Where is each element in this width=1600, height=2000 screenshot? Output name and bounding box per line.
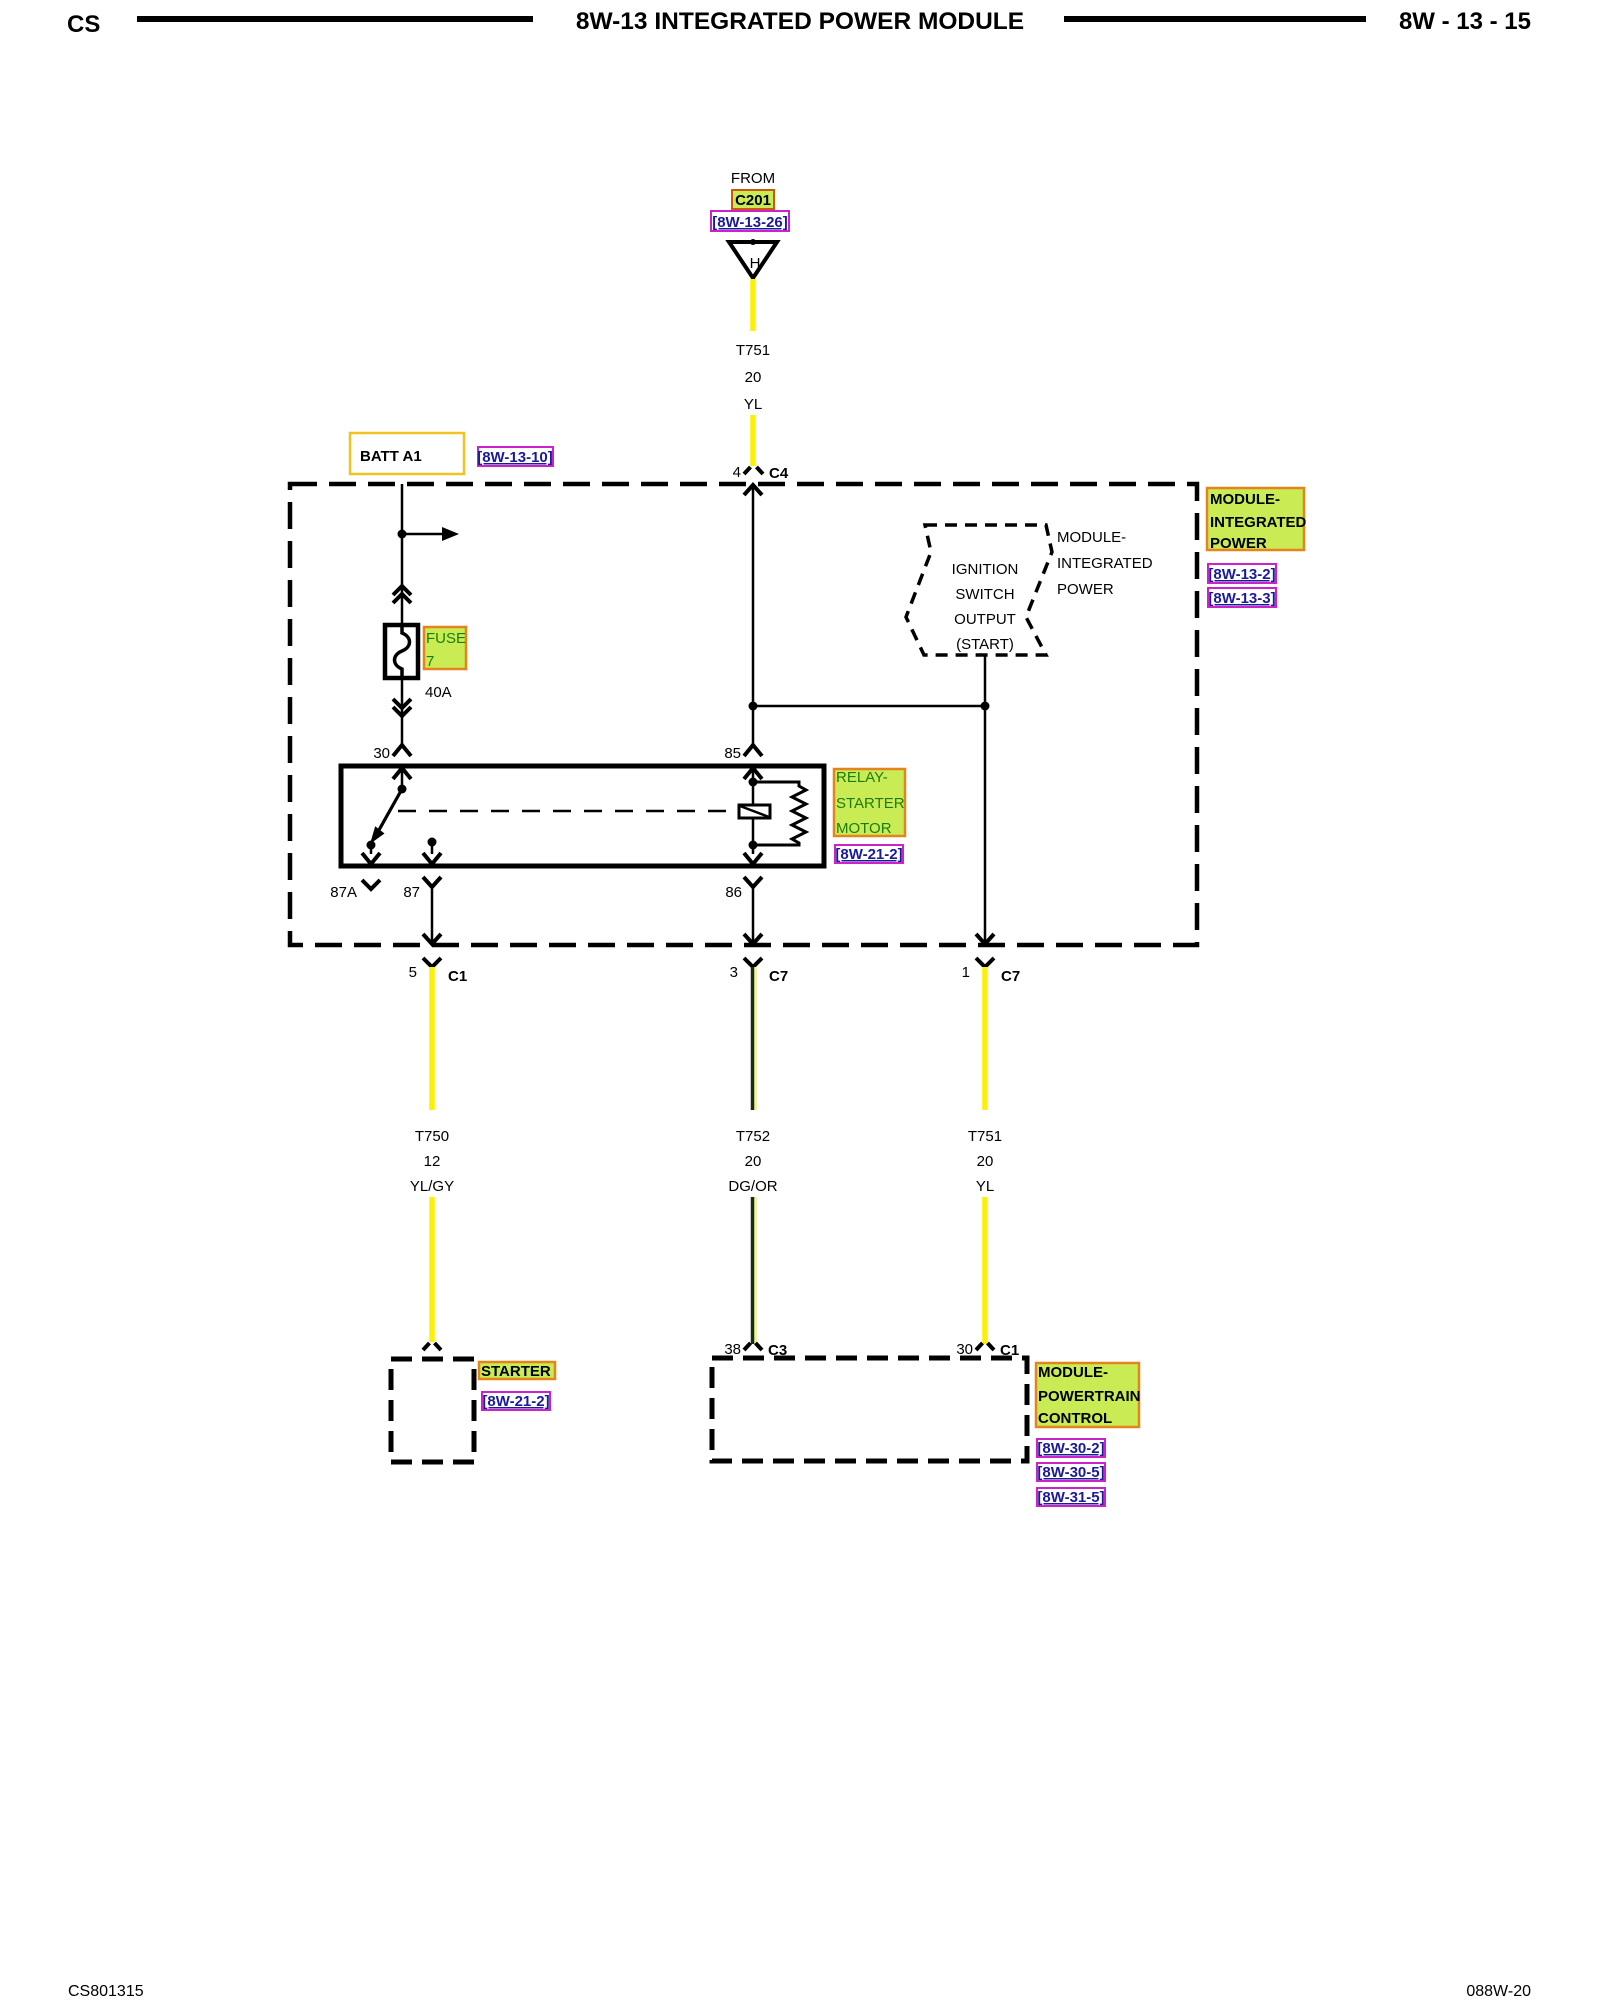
svg-text:CS: CS bbox=[67, 11, 100, 38]
svg-text:8W-13 INTEGRATED POWER MODULE: 8W-13 INTEGRATED POWER MODULE bbox=[576, 8, 1024, 35]
svg-text:FUSE: FUSE bbox=[426, 630, 466, 647]
relay 85 internal arrow bbox=[744, 768, 762, 779]
wire T751 yellow segment 3 bbox=[982, 967, 988, 1110]
connector C3 pin 38 entry bbox=[724, 1341, 787, 1359]
wire 86 down to C7 bbox=[752, 887, 755, 941]
BATT A1 source box bbox=[350, 433, 464, 474]
svg-text:RELAY-: RELAY- bbox=[836, 769, 888, 786]
svg-text:YL: YL bbox=[976, 1178, 994, 1195]
svg-text:86: 86 bbox=[725, 884, 742, 901]
link box 8W-30-2 bbox=[1037, 1439, 1105, 1457]
svg-text:(START): (START) bbox=[956, 636, 1014, 653]
header: right rule bbox=[1064, 16, 1366, 22]
node: C201 highlighted connector name bbox=[732, 190, 774, 209]
svg-text:YL: YL bbox=[744, 396, 762, 413]
svg-text:85: 85 bbox=[724, 745, 741, 762]
svg-text:30: 30 bbox=[373, 745, 390, 762]
svg-text:[8W-13-2]: [8W-13-2] bbox=[1208, 566, 1275, 583]
wire label T751 20 YL lower bbox=[968, 1128, 1002, 1195]
svg-text:30: 30 bbox=[956, 1341, 973, 1358]
svg-text:OUTPUT: OUTPUT bbox=[954, 611, 1016, 628]
svg-text:T750: T750 bbox=[415, 1128, 449, 1145]
wire T750 yellow segment 2 bbox=[429, 1197, 435, 1342]
relay 86 internal arrow bbox=[744, 853, 762, 864]
coil bottom dot bbox=[749, 841, 758, 850]
relay pin 87 connector bbox=[403, 877, 441, 901]
header: left rule bbox=[137, 16, 533, 22]
svg-text:BATT A1: BATT A1 bbox=[360, 448, 422, 465]
label: RELAY-STARTER MOTOR highlighted bbox=[834, 769, 905, 837]
svg-text:20: 20 bbox=[745, 1153, 762, 1170]
wire ignition output down bbox=[984, 655, 987, 943]
wire 87 down to C1 bbox=[431, 887, 434, 941]
connector C4 pin 4 entry bbox=[733, 464, 789, 482]
svg-text:[8W-13-10]: [8W-13-10] bbox=[477, 449, 553, 466]
svg-text:[8W-31-5]: [8W-31-5] bbox=[1037, 1489, 1104, 1506]
fuse 7 element bbox=[385, 625, 418, 678]
relay pin 85 connector bbox=[724, 745, 762, 762]
arrow down at C1 bbox=[423, 934, 441, 944]
svg-text:POWER: POWER bbox=[1210, 535, 1267, 552]
svg-text:12: 12 bbox=[424, 1153, 441, 1170]
branch arrow to the right bbox=[402, 527, 459, 541]
svg-text:C4: C4 bbox=[769, 465, 789, 482]
svg-text:MODULE-: MODULE- bbox=[1038, 1364, 1108, 1381]
wire T751 yellow segment 1 bbox=[750, 279, 756, 331]
label: MODULE-POWERTRAIN CONTROL highlighted bbox=[1036, 1363, 1141, 1427]
link box 8W-13-2 bbox=[1208, 564, 1276, 583]
svg-text:87: 87 bbox=[403, 884, 420, 901]
svg-text:STARTER: STARTER bbox=[836, 795, 905, 812]
relay pin 30 connector bbox=[373, 745, 411, 762]
link box 8W-30-5 bbox=[1037, 1463, 1105, 1481]
wire T752 dark green segment 2 bbox=[753, 1197, 756, 1344]
svg-text:20: 20 bbox=[745, 369, 762, 386]
87 terminal dot bbox=[428, 838, 437, 847]
link box 8W-21-2 bbox=[835, 845, 903, 863]
relay pin 86 connector bbox=[725, 877, 762, 901]
87A terminal dot bbox=[367, 841, 376, 850]
in-line connector chevrons down pair bbox=[393, 699, 411, 716]
connector C1 pin 5 exit bbox=[409, 958, 468, 985]
svg-text:40A: 40A bbox=[425, 684, 452, 701]
svg-text:088W-20: 088W-20 bbox=[1466, 1983, 1531, 2000]
starter dashed box bbox=[391, 1359, 474, 1462]
svg-text:[8W-13-3]: [8W-13-3] bbox=[1208, 590, 1275, 607]
arrow up into C4 bbox=[744, 485, 762, 495]
svg-text:IGNITION: IGNITION bbox=[952, 561, 1019, 578]
relay coil branch vertical bbox=[752, 768, 755, 854]
label: MODULE-INTEGRATED POWER highlighted bbox=[1207, 488, 1307, 552]
junction dot on BATT wire bbox=[398, 530, 407, 539]
relay internal dashed actuate line bbox=[398, 810, 739, 813]
wire T751 yellow segment 2 bbox=[750, 415, 756, 466]
svg-text:INTEGRATED: INTEGRATED bbox=[1210, 514, 1307, 531]
relay switch pivot line bbox=[401, 768, 404, 789]
suppression resistor loop bbox=[753, 782, 806, 845]
wire label T751 20 YL bbox=[736, 342, 770, 413]
module-integrated power dashed box bbox=[290, 484, 1197, 945]
wire label T750 12 YL/GY bbox=[410, 1128, 454, 1195]
wire T751 yellow segment 4 bbox=[982, 1197, 988, 1344]
wire from BATT A1 down bbox=[401, 484, 404, 625]
link box 8W-21-2 starter bbox=[482, 1392, 550, 1410]
svg-text:T752: T752 bbox=[736, 1128, 770, 1145]
pivot dot bbox=[398, 785, 407, 794]
connector C7 pin 3 exit bbox=[730, 958, 789, 985]
svg-text:20: 20 bbox=[977, 1153, 994, 1170]
relay-starter motor box bbox=[341, 766, 824, 866]
svg-text:FROM: FROM bbox=[731, 170, 775, 187]
svg-text:C1: C1 bbox=[448, 968, 467, 985]
svg-text:YL/GY: YL/GY bbox=[410, 1178, 454, 1195]
svg-text:SWITCH: SWITCH bbox=[955, 586, 1014, 603]
wire fuse to relay pin 30 bbox=[401, 678, 404, 745]
svg-text:DG/OR: DG/OR bbox=[728, 1178, 777, 1195]
svg-text:[8W-21-2]: [8W-21-2] bbox=[835, 846, 902, 863]
module-integrated power side note bbox=[1057, 529, 1153, 598]
svg-text:[8W-30-2]: [8W-30-2] bbox=[1037, 1440, 1104, 1457]
svg-text:C7: C7 bbox=[769, 968, 788, 985]
wire horizontal to ignition branch bbox=[753, 705, 985, 708]
svg-text:[8W-21-2]: [8W-21-2] bbox=[482, 1393, 549, 1410]
link box 8W-13-3 bbox=[1208, 588, 1276, 607]
relay pin 87A connector bbox=[330, 880, 380, 901]
wire T752 dark green segment 1 bbox=[753, 967, 756, 1110]
link box 8W-31-5 bbox=[1037, 1488, 1105, 1506]
svg-text:POWERTRAIN: POWERTRAIN bbox=[1038, 1388, 1141, 1405]
link box 8W-13-10 bbox=[477, 447, 553, 466]
svg-text:5: 5 bbox=[409, 964, 417, 981]
label: STARTER highlighted bbox=[479, 1362, 555, 1380]
svg-text:[8W-13-26]: [8W-13-26] bbox=[712, 214, 788, 231]
wire C4 down to relay pin 85 bbox=[752, 486, 755, 745]
in-line connector chevrons up pair bbox=[393, 586, 411, 603]
87A stub and arrow bbox=[362, 845, 380, 864]
powertrain control module dashed box bbox=[712, 1358, 1027, 1461]
svg-text:[8W-30-5]: [8W-30-5] bbox=[1037, 1464, 1104, 1481]
connector C1 pin 30 entry bbox=[956, 1341, 1019, 1359]
svg-text:T751: T751 bbox=[736, 342, 770, 359]
svg-text:POWER: POWER bbox=[1057, 581, 1114, 598]
svg-text:4: 4 bbox=[733, 464, 741, 481]
svg-text:38: 38 bbox=[724, 1341, 741, 1358]
off-page connector triangle H bbox=[729, 239, 777, 278]
starter box entry connector bbox=[423, 1343, 441, 1350]
junction dot at 85 wire bbox=[749, 702, 758, 711]
svg-text:CS801315: CS801315 bbox=[68, 1983, 144, 2000]
87 stub and arrow bbox=[423, 842, 441, 864]
wire T750 yellow segment 1 bbox=[429, 967, 435, 1110]
svg-text:CONTROL: CONTROL bbox=[1038, 1410, 1112, 1427]
svg-text:MODULE-: MODULE- bbox=[1057, 529, 1126, 546]
svg-text:8W - 13 - 15: 8W - 13 - 15 bbox=[1399, 8, 1531, 35]
svg-text:INTEGRATED: INTEGRATED bbox=[1057, 555, 1153, 572]
svg-text:T751: T751 bbox=[968, 1128, 1002, 1145]
svg-text:87A: 87A bbox=[330, 884, 357, 901]
svg-text:H: H bbox=[750, 255, 761, 272]
svg-text:C7: C7 bbox=[1001, 968, 1020, 985]
link box 8W-13-26 bbox=[711, 211, 789, 231]
svg-text:7: 7 bbox=[426, 653, 434, 670]
arrow down at C7 bbox=[744, 934, 762, 944]
junction dot at ignition branch bbox=[981, 702, 990, 711]
relay 30 internal arrow bbox=[393, 768, 411, 779]
svg-text:MOTOR: MOTOR bbox=[836, 820, 892, 837]
wire label T752 20 DG/OR bbox=[728, 1128, 777, 1195]
switch blade to 87A bbox=[370, 789, 402, 844]
svg-text:3: 3 bbox=[730, 964, 738, 981]
svg-text:MODULE-: MODULE- bbox=[1210, 491, 1280, 508]
svg-text:STARTER: STARTER bbox=[481, 1363, 551, 1380]
label: FUSE 7 highlighted bbox=[424, 627, 466, 670]
arrow down at ignition C7 bbox=[976, 934, 994, 944]
relay coil symbol bbox=[739, 805, 770, 818]
svg-text:C201: C201 bbox=[735, 192, 771, 209]
ignition switch output (start) dashed shape bbox=[906, 525, 1052, 655]
svg-text:1: 1 bbox=[962, 964, 970, 981]
connector C7 pin 1 exit bbox=[962, 958, 1021, 985]
ignition switch output text bbox=[952, 561, 1019, 653]
coil top dot bbox=[749, 778, 758, 787]
